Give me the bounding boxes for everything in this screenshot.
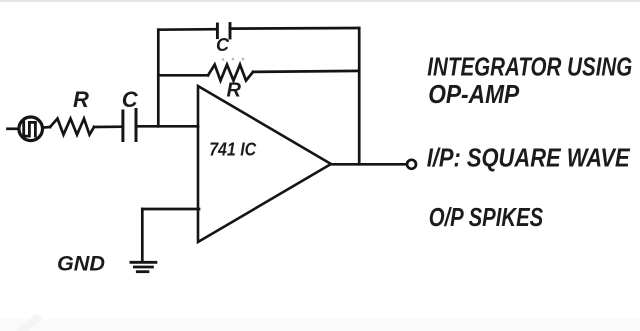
- capacitor C (input) plate left: [121, 111, 124, 141]
- op-amp U1 741 triangle: [198, 86, 331, 242]
- wire feedback top right: [230, 27, 359, 30]
- capacitor C (input) plate right: [135, 110, 138, 141]
- wire output: [331, 163, 407, 166]
- source VG1 square-wave generator circle: [19, 117, 43, 141]
- wire non-inverting input horizontal: [142, 208, 199, 211]
- svg-text:R: R: [73, 87, 89, 112]
- bottom border strip: [0, 319, 640, 331]
- capacitor C (feedback) plate left: [216, 24, 219, 38]
- svg-text:C: C: [122, 87, 139, 112]
- resistor R (feedback): [208, 65, 253, 81]
- source VG1 square-wave glyph: [24, 122, 36, 136]
- wire to ground vertical: [141, 209, 144, 262]
- svg-text:GND: GND: [57, 253, 105, 276]
- svg-text:R: R: [227, 80, 242, 102]
- wire feedback resistor right: [253, 71, 359, 72]
- svg-text:OP-AMP: OP-AMP: [428, 79, 520, 109]
- wire R to C: [94, 125, 122, 128]
- wire feedback resistor left: [158, 74, 208, 77]
- wire junction up to feedback: [157, 30, 160, 127]
- svg-text:741 IC: 741 IC: [209, 140, 257, 160]
- watermark remnant bottom-left: [16, 314, 43, 331]
- wire input stub: [8, 127, 19, 130]
- svg-text:INTEGRATOR USING: INTEGRATOR USING: [427, 52, 632, 82]
- output terminal circle: [407, 160, 416, 169]
- ground symbol bar 3: [137, 270, 148, 273]
- resistor R (input): [50, 119, 94, 135]
- svg-text:O/P SPIKES: O/P SPIKES: [429, 202, 544, 232]
- ground symbol bar 1: [131, 261, 156, 264]
- svg-text:I/P: SQUARE WAVE: I/P: SQUARE WAVE: [427, 142, 631, 172]
- dotted mark above feedback resistor: [222, 58, 245, 61]
- wire feedback top left: [158, 28, 217, 31]
- top border strip: [0, 0, 640, 2]
- wire C to op-amp inverting input: [136, 125, 198, 128]
- wire feedback right vertical: [358, 28, 361, 164]
- svg-text:C: C: [216, 35, 230, 55]
- wire source to R: [43, 126, 50, 129]
- capacitor C (feedback) plate right: [229, 24, 232, 39]
- ground symbol bar 2: [134, 266, 152, 269]
